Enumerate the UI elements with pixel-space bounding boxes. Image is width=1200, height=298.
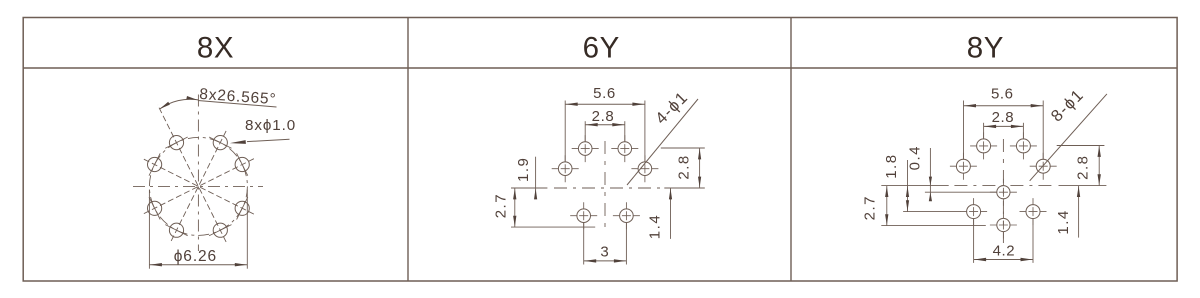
8Y hole 7 xyxy=(1026,205,1040,219)
svg-text:6Y: 6Y xyxy=(583,32,620,65)
8Y dim 0.4 line xyxy=(929,148,931,199)
table column divider 2 xyxy=(790,18,792,282)
6Y hole 5 xyxy=(577,209,591,223)
svg-text:8xϕ1.0: 8xϕ1.0 xyxy=(245,117,296,134)
8Y hole 5 xyxy=(997,186,1010,199)
8X angle text shelf line xyxy=(198,101,277,108)
8Y dim 2.8 dimension line xyxy=(984,125,1024,127)
6Y dim 5.6 extension lines xyxy=(564,101,566,162)
8Y left ref line bottom-center row xyxy=(881,225,986,227)
svg-text:5.6: 5.6 xyxy=(593,85,616,102)
8X hole 3 xyxy=(235,157,249,171)
6Y dim 3 dimension line xyxy=(584,260,627,262)
8X hole size leader 8xphi1.0 xyxy=(247,139,290,141)
table column divider 1 xyxy=(407,18,409,282)
8Y hole 6 xyxy=(967,205,981,219)
8Y hole 8 xyxy=(997,218,1010,231)
8Y hole 4 xyxy=(1036,159,1050,173)
8X dim phi6.26 extension line right xyxy=(246,190,248,269)
svg-text:5.6: 5.6 xyxy=(991,86,1014,103)
8Y leader 8-phi1 xyxy=(1030,94,1107,181)
6Y hole 3 xyxy=(558,162,572,176)
svg-text:3: 3 xyxy=(600,243,609,260)
svg-text:1.8: 1.8 xyxy=(883,153,900,178)
svg-text:2.8: 2.8 xyxy=(675,154,692,179)
8X hole 7 xyxy=(213,223,227,237)
svg-text:8Y: 8Y xyxy=(967,32,1004,65)
8Y dim 2.7 line xyxy=(886,186,888,226)
8Y dim 1.4 line xyxy=(1078,186,1080,238)
svg-text:ϕ6.26: ϕ6.26 xyxy=(174,248,217,265)
svg-text:8X: 8X xyxy=(197,32,234,65)
8Y dim 5.6 extension lines xyxy=(963,101,965,160)
8X radial centerlines xyxy=(158,105,226,242)
svg-text:2.8: 2.8 xyxy=(992,109,1015,126)
6Y horizontal centerline xyxy=(554,187,661,189)
8X dim phi6.26 extension line left xyxy=(148,190,150,269)
6Y dim 1.4 line xyxy=(670,188,672,239)
6Y vertical centerline xyxy=(604,141,606,232)
6Y leader 4-phi1 xyxy=(627,99,698,185)
6Y dim 2.8 extension lines xyxy=(584,121,586,141)
8Y hole 2 xyxy=(1016,139,1030,153)
6Y hole 6 xyxy=(620,209,634,223)
6Y dim 2.8 dimension line xyxy=(585,124,625,126)
svg-text:2.8: 2.8 xyxy=(1074,155,1091,180)
8Y vertical centerline xyxy=(1002,139,1004,243)
6Y right centerline ext xyxy=(664,187,705,189)
8Y left ref line center-hole row xyxy=(925,191,997,193)
svg-text:2.8: 2.8 xyxy=(592,108,615,125)
8Y dim 1.8 line xyxy=(907,160,909,212)
svg-text:1.4: 1.4 xyxy=(1055,209,1072,234)
8X hole 5 xyxy=(235,201,249,215)
svg-text:1.4: 1.4 xyxy=(647,214,664,239)
6Y hole 4 xyxy=(638,162,652,176)
svg-text:2.7: 2.7 xyxy=(493,193,510,218)
8X hole 8 xyxy=(169,223,183,237)
svg-text:2.7: 2.7 xyxy=(861,195,878,220)
6Y left reference line at centerline xyxy=(511,187,547,189)
8Y left ref line bottom row xyxy=(903,211,960,213)
8X vertical centerline xyxy=(197,95,199,252)
8X dim phi6.26 dimension line xyxy=(149,264,247,266)
8Y hole 1 xyxy=(977,139,991,153)
svg-text:1.9: 1.9 xyxy=(515,157,532,182)
8X hole 6 xyxy=(148,201,162,215)
8Y horizontal centerline xyxy=(881,185,948,187)
table header divider xyxy=(23,67,1177,69)
8X bolt circle phi6.26 xyxy=(149,137,247,235)
8X angle dimension arc 8x26.565 xyxy=(160,99,199,109)
6Y left reference line bottom xyxy=(511,226,595,228)
6Y dim 2.7 line xyxy=(514,188,516,227)
6Y dim 3 extension lines xyxy=(583,223,585,265)
svg-text:0.4: 0.4 xyxy=(907,145,924,170)
8X hole 4 xyxy=(148,157,162,171)
8Y dim 2.8 right line xyxy=(1098,146,1100,186)
6Y dim 5.6 dimension line xyxy=(565,103,645,105)
8X horizontal centerline xyxy=(133,185,263,187)
svg-text:4.2: 4.2 xyxy=(993,242,1016,259)
6Y right ext line top xyxy=(661,147,705,149)
8Y dim 4.2 dimension line xyxy=(974,259,1033,261)
6Y hole 1 xyxy=(578,142,592,156)
8Y dim 4.2 extension lines xyxy=(973,219,975,263)
8X hole 2 xyxy=(169,136,183,150)
6Y dim 1.9 line xyxy=(535,157,537,197)
6Y dim 2.8 right line xyxy=(699,148,701,188)
8Y right ext line top xyxy=(1057,145,1105,147)
8Y dim 2.8 extension lines xyxy=(983,123,985,139)
8Y hole 3 xyxy=(956,159,970,173)
8X hole 1 xyxy=(213,136,227,150)
6Y hole 2 xyxy=(618,142,632,156)
8Y dim 5.6 dimension line xyxy=(964,105,1044,107)
